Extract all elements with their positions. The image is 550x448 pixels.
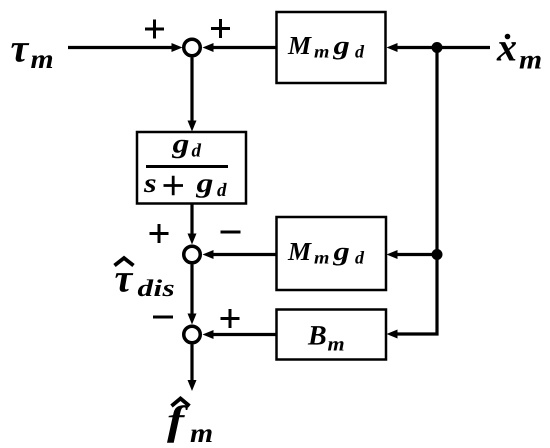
- wire: summing junction 2 down to summing junction 3: [188, 265, 197, 325]
- svg-text:g: g: [171, 129, 189, 159]
- wire: block M_m g_d (middle) to summing junction 2: [203, 250, 277, 259]
- node: branch dot on x_m line: [432, 42, 443, 53]
- label g_d / (s+g_d) fraction: [143, 129, 228, 202]
- plus sign (into summing junction 3 from B_m): [221, 309, 240, 328]
- label M_m g_d (middle block): [287, 237, 365, 268]
- wire: summing junction 1 down to filter block: [188, 58, 197, 132]
- svg-text:g: g: [195, 168, 213, 198]
- label f_m estimate (hat f m): [167, 397, 213, 448]
- block U2: g_d/(s+g_d) filter: [137, 132, 246, 204]
- svg-text:m: m: [190, 418, 213, 448]
- svg-text:m: m: [519, 45, 542, 75]
- svg-text:dis: dis: [138, 276, 176, 302]
- wire: filter block down to summing junction 2: [188, 204, 197, 245]
- summing junction 3: [184, 326, 201, 343]
- label M_m g_d (top block): [287, 31, 365, 62]
- svg-text:M: M: [287, 237, 312, 266]
- svg-text:d: d: [355, 248, 365, 268]
- svg-text:τ: τ: [11, 26, 30, 71]
- svg-text:τ: τ: [115, 256, 134, 301]
- label tau_dis estimate (hat tau dis): [115, 256, 176, 303]
- svg-text:g: g: [332, 31, 350, 60]
- svg-text:B: B: [307, 321, 327, 352]
- node: branch dot on right rail at M_m g_d (middle) level: [432, 249, 443, 260]
- plus sign (tau_m into summing junction 1): [145, 20, 164, 39]
- svg-text:m: m: [328, 334, 345, 356]
- wire: block B_m to summing junction 3: [203, 330, 277, 339]
- wire: right rail branch to block M_m g_d (middle): [387, 250, 438, 259]
- block U1: M_m g_d (top): [277, 12, 386, 83]
- summing junction 1: [184, 39, 201, 56]
- label B_m: [307, 321, 345, 356]
- svg-text:d: d: [355, 42, 365, 62]
- wire: right rail from node down to B_m with branch to M_m g_d (middle): [387, 48, 438, 339]
- svg-text:m: m: [314, 42, 329, 62]
- minus sign (into summing junction 2 from M_m g_d): [221, 231, 241, 234]
- svg-text:d: d: [192, 141, 202, 162]
- svg-text:m: m: [31, 44, 54, 74]
- block U4: B_m: [277, 310, 387, 360]
- label tau_m: [11, 26, 54, 75]
- summing junction 2: [184, 246, 201, 263]
- svg-text:M: M: [287, 31, 312, 60]
- svg-text:s: s: [143, 168, 157, 198]
- wire: summing junction 3 down to output f_m: [188, 345, 197, 392]
- svg-text:m: m: [314, 248, 329, 268]
- plus sign (feedback into summing junction 1): [211, 19, 230, 38]
- label x_m (dot over x): [496, 25, 542, 75]
- svg-text:x: x: [496, 25, 517, 70]
- wire: tau_m input line: [68, 43, 183, 52]
- plus sign (into summing junction 2 from top path): [150, 224, 169, 243]
- wire: block M_m g_d (top) to summing junction 1: [203, 43, 277, 52]
- block U3: M_m g_d (middle): [277, 217, 387, 290]
- minus sign (into summing junction 3 from top path): [153, 316, 173, 319]
- svg-text:g: g: [332, 237, 350, 266]
- svg-text:d: d: [217, 180, 227, 201]
- wire: x_m input to block U1 with branch node: [387, 43, 491, 52]
